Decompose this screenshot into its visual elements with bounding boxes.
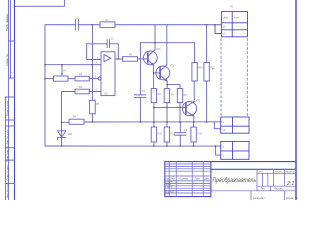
connector box X1 middle — [221, 117, 249, 133]
svg-text:R14: R14 — [198, 133, 203, 136]
kopiroval/format row dividers — [250, 191, 252, 200]
wire H1 main top horizontal — [45, 24, 76, 26]
wire R12 leads — [153, 122, 155, 127]
title block texts — [165, 172, 298, 201]
resistor R13 row2 — [164, 127, 169, 142]
resistor R9 vertical row1 — [177, 89, 182, 103]
op-amp U1 triangle — [104, 55, 111, 62]
svg-text:R3: R3 — [79, 73, 83, 76]
wire C2 right branch to output — [110, 44, 119, 59]
wire R7 bottom lead — [153, 103, 155, 122]
svg-text:R12: R12 — [158, 133, 163, 136]
wire VT2 base from VT1 emitter — [154, 72, 161, 74]
wire R6 to VT1 base — [138, 58, 148, 60]
svg-text:R5: R5 — [96, 103, 100, 106]
svg-text:Т.контр.: Т.контр. — [165, 187, 174, 189]
wire R8 bottom lead — [166, 103, 168, 122]
capacitor C3 — [134, 94, 146, 96]
svg-text:Утв.: Утв. — [165, 194, 170, 196]
svg-text:Копировал: Копировал — [253, 198, 265, 200]
wire C3 bottom lead — [139, 97, 141, 122]
frame left margin column line — [7, 0, 9, 200]
wire VT3 collector up — [193, 81, 195, 102]
svg-text:Лит.: Лит. — [259, 172, 264, 174]
frame left margin lower outer line — [4, 97, 6, 200]
svg-text:10: 10 — [223, 129, 226, 132]
svg-text:9С: 9С — [223, 32, 226, 35]
svg-text:R6: R6 — [129, 54, 133, 57]
wire R4 left lead to V61 — [62, 92, 76, 147]
resistor R5 vertical under op-amp — [90, 100, 96, 114]
wire H3 middle bus — [84, 121, 221, 123]
wire C2 left branch — [87, 44, 108, 60]
title block outer left part — [165, 162, 211, 197]
svg-text:C4: C4 — [184, 129, 188, 132]
wire capacitor C3 top lead — [139, 43, 141, 95]
resistor R6 output series — [123, 57, 138, 62]
wire R11 top lead to H1 — [206, 25, 208, 63]
wire W42 collector node horizontal — [140, 42, 194, 44]
svg-text:Цепь: Цепь — [223, 16, 229, 19]
connector box X1 top — [215, 12, 249, 160]
svg-text:Лист: Лист — [170, 179, 176, 181]
svg-text:C3: C3 — [142, 90, 146, 93]
wire pot right lead — [68, 78, 75, 80]
wire H4 bottom bus — [45, 145, 221, 147]
svg-text:2: 2 — [96, 88, 98, 91]
svg-text:R2: R2 — [64, 70, 68, 73]
resistor R12 row2 — [151, 127, 156, 142]
svg-text:R9: R9 — [184, 94, 188, 97]
svg-text:6: 6 — [96, 62, 98, 65]
svg-text:4: 4 — [223, 146, 225, 149]
wire R4b left lead — [62, 121, 70, 123]
wire R13 leads — [166, 122, 168, 127]
wire R14 leads — [193, 122, 195, 127]
svg-text:DA: DA — [104, 92, 108, 95]
wire VT3 emitter down to H3 — [193, 116, 195, 122]
svg-text:1: 1 — [223, 121, 225, 124]
title block top edge right part — [211, 161, 296, 163]
wire H1 jog into X1 row3 — [215, 25, 221, 34]
capacitor C4 row2 — [175, 132, 186, 134]
svg-text:R: R — [212, 68, 214, 71]
resistor R10 vertical pair left — [192, 63, 197, 82]
wire VT1 emitter down — [153, 65, 155, 88]
wire V1 from H1 down to H3 — [91, 25, 93, 101]
svg-text:VT2: VT2 — [170, 64, 175, 67]
wire W107 VT3 base bus — [154, 106, 186, 108]
svg-text:VT1: VT1 — [156, 48, 161, 51]
wire R3 to inverting input — [89, 78, 98, 80]
op-amp U1 body — [101, 52, 115, 96]
wire op-amp output — [115, 58, 123, 60]
capacitor C2 feedback — [106, 40, 108, 48]
svg-text:Лист: Лист — [260, 189, 266, 191]
potentiometer wiper arrow — [61, 65, 63, 74]
connector box X1 bottom — [221, 141, 249, 159]
svg-text:R4: R4 — [73, 115, 77, 118]
left margin cell dividers — [8, 40, 14, 42]
svg-text:Подп.: Подп. — [195, 179, 201, 181]
svg-text:Изм: Изм — [165, 179, 170, 181]
svg-text:C2: C2 — [111, 38, 115, 41]
svg-text:3: 3 — [95, 75, 97, 78]
svg-text:2:1: 2:1 — [286, 181, 294, 187]
wire R9 bottom lead — [179, 103, 181, 122]
wire C4 leads — [179, 122, 181, 133]
resistor R1 — [100, 22, 115, 28]
dashed connector continuation left — [220, 39, 222, 117]
transistor VT3 — [182, 102, 196, 116]
title block columns — [165, 162, 296, 200]
left margin rotated tiny texts — [5, 13, 9, 198]
wire VT2 collector up to H1 — [166, 25, 168, 65]
frame left margin extra upper line — [9, 0, 11, 78]
svg-text:А1: А1 — [230, 5, 234, 8]
svg-text:Формат A3: Формат A3 — [286, 197, 298, 200]
title block left rows — [165, 163, 211, 165]
dashed connector continuation right — [246, 39, 248, 117]
svg-text:Перв. примен.: Перв. примен. — [5, 13, 9, 31]
lit/massa/masshtab columns — [272, 169, 274, 186]
svg-text:R7: R7 — [158, 93, 162, 96]
svg-text:VT3: VT3 — [196, 99, 201, 102]
wire VT2 emitter branch to R9 top — [167, 85, 180, 89]
wire R10 top lead — [194, 43, 196, 63]
wire VT2 emitter down — [166, 81, 168, 88]
resistor R3 — [75, 76, 89, 81]
svg-text:7: 7 — [116, 56, 118, 59]
frame left inner border — [14, 0, 16, 200]
resistor R4b body in H3 — [69, 119, 84, 124]
svg-text:C1: C1 — [75, 16, 79, 19]
svg-text:R8: R8 — [171, 93, 175, 96]
svg-text:R1: R1 — [106, 19, 110, 22]
svg-text:VD1: VD1 — [68, 133, 73, 136]
resistor R11 vertical pair right — [204, 63, 209, 82]
svg-text:Масса: Масса — [275, 172, 283, 174]
capacitor C1 — [75, 20, 77, 30]
resistor R8 vertical row1 — [164, 89, 169, 103]
svg-text:№ докум.: № докум. — [178, 178, 188, 181]
svg-text:R10: R10 — [198, 66, 203, 69]
resistor R14 row2 — [191, 127, 196, 142]
svg-text:Листов 1: Листов 1 — [274, 189, 284, 191]
wire pot left lead — [45, 78, 54, 80]
transistor VT1 — [143, 51, 157, 65]
wire V45 left vertical — [44, 25, 46, 146]
lit sub cells — [261, 173, 263, 186]
svg-text:Подп. и дата: Подп. и дата — [6, 100, 10, 116]
title block — [165, 162, 296, 200]
svg-text:Конт: Конт — [234, 16, 240, 19]
wire VT1 collector up to H1 — [154, 25, 156, 50]
wire H4 jog into box2 row2 — [216, 146, 221, 155]
wire input top-left — [15, 0, 65, 6]
svg-text:Инв. № подл.: Инв. № подл. — [6, 182, 10, 198]
frame right border — [295, 0, 297, 200]
svg-text:Взам. инв. №: Взам. инв. № — [6, 146, 10, 162]
component value labels — [64, 5, 241, 157]
svg-text:Подп. и дата: Подп. и дата — [6, 165, 10, 181]
title block designation cell bottom — [211, 168, 296, 170]
svg-text:Преобразователь: Преобразователь — [213, 176, 257, 184]
svg-text:Справ. №: Справ. № — [5, 54, 9, 66]
svg-text:Инв. № дубл.: Инв. № дубл. — [6, 129, 10, 145]
svg-text:5: 5 — [223, 155, 225, 158]
title block name cell divider — [256, 169, 258, 191]
potentiometer R2 — [54, 76, 69, 81]
wire R11 bottom lead to H3 — [206, 81, 208, 122]
transistor VT2 — [156, 66, 170, 80]
wire R4 right lead — [89, 91, 101, 93]
svg-text:Дата: Дата — [204, 179, 210, 181]
resistor R7 vertical row1 — [151, 89, 156, 103]
wire H2 op-amp input horizontal — [45, 64, 101, 66]
resistor R4 — [75, 89, 89, 94]
wire H3 jog into box1 row2 — [214, 122, 220, 129]
op-amp inverting bubble — [98, 77, 101, 80]
list row — [257, 185, 296, 187]
svg-text:R13: R13 — [171, 133, 176, 136]
svg-text:1С: 1С — [223, 25, 226, 28]
zener diode VD1 — [58, 131, 66, 138]
svg-text:4: 4 — [97, 56, 99, 59]
svg-text:Масштаб: Масштаб — [285, 172, 296, 174]
